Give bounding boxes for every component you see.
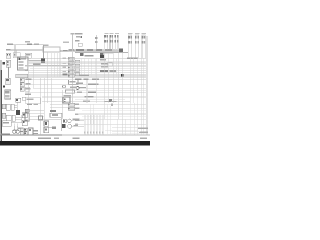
junction box (50-62,113-117) [50,113,62,117]
label column x75 lower [75,103,79,105]
dark seg [88,92,97,94]
label text right of R2 [85,55,94,57]
connector stack x75-79 [75,60,80,76]
faint verticals x51-60 [52,53,60,77]
connector P3 [6,78,11,85]
box outline lower-left big [26,98,41,104]
fuse dashes on x96 [95,37,97,39]
pin dots on stack [68,58,69,77]
lamp legs up [13,124,15,126]
fuse group G5 x135-139 [135,33,140,58]
wire label 2 on bus A [34,43,39,45]
node drop wires x15,x16 [14,45,16,57]
misc faint crosshatch verticals mid-page [89,104,91,124]
connector rows right-mid (68-75,103-110) [68,103,75,106]
dark seg [85,96,94,98]
blob (111-113,103-107) [105,101,110,102]
bottom-left text [1,134,11,136]
relay text block top (75-82,33-36) [75,33,83,34]
wire y101.8 [42,101,130,103]
lower-left connector cluster [2,104,15,121]
wire from ECU right y60.5 [28,60,41,62]
wires right of D1/D2 [29,109,44,111]
fuse group G3 x114-118 [115,33,119,50]
dark segs on y79.6 [75,79,82,81]
connector with pin (15-21,98-103) [16,98,21,102]
wire bus y72.4 [28,71,146,73]
arrow tick [3,62,5,64]
small box on x40 wire [39,116,43,120]
wire bus y70.6 [25,70,146,72]
right bottom faint ladder [112,127,138,129]
box (28-33,128-135) [28,128,33,135]
right page-edge wire [146,36,149,135]
footer text strips [38,137,51,139]
tick on x72 [71,33,74,34]
faint horizontals bottom-right [105,130,138,132]
wires y104,y107.6 [50,103,68,105]
fuse group G6 x141-146 [141,33,146,58]
box (65-75,90-93) [66,90,75,93]
small boxes right of B1 [20,83,24,87]
tiny text above J1 [44,44,49,46]
text (80-86,87-89) [80,87,87,89]
relay R2 small dark (80-84,53-57) [80,53,83,56]
wire label on bus A [27,43,32,45]
symbol row 2: relay + lamp (62-80,124-128) [62,124,84,128]
wire y63 [28,62,146,64]
lamp circle (76-79,87-89) [76,87,79,90]
tiny text right [25,41,30,43]
left text (25-31,94-96) [25,93,31,95]
fuse group G2 x109-113 [109,33,113,50]
flat module M1 (15-28,74-78) [16,74,28,77]
wire grid horizontals mid [28,60,146,62]
faint verticals bottom-right [129,103,131,135]
connector B1 (17-21,84-90) [20,78,24,82]
pins on P1 [7,54,8,55]
label above M2 [64,95,72,97]
wire bus y65.5 [25,65,72,67]
splice dot (121-123,74-76) [121,74,124,77]
connector stack S-col x68-74 [68,57,74,77]
bottom page border wire [0,134,62,137]
bottom connector stack T1 (44-49,121-133) [44,121,49,133]
wire x8 down [7,67,9,78]
left text rows [26,79,32,81]
wire y58 long [31,57,146,59]
vertical wire x40 bottom [39,120,41,135]
wire y97 [42,96,146,98]
text (70-76,86-89) [70,86,76,88]
connector dark (100-104,53-58) [100,53,103,55]
small box (25,87) [25,87,30,91]
dark segment on y58 [127,58,138,60]
text above lamps [18,128,24,130]
wire y92.6 [25,92,146,94]
connector label K2 [6,49,11,50]
symbol row 1: connector + lamp (62-80,118-123) [63,118,84,122]
text (77-85,82-84) [76,82,83,84]
mid-band bus y79.6 [25,79,146,81]
left text (28-33,88-90) [26,88,31,90]
module M2 (63-70,97-103) [63,97,70,103]
fuse group G4 x128-132 [128,33,133,58]
splice S1 dark dash [63,50,68,52]
wire x96 vertical [95,35,97,50]
connector D2 (25-29,113-121) [25,113,29,121]
wire y90.6 [75,90,146,92]
pin ticks at bottom of drops [84,131,103,133]
connector C10 dark blob (41-45,58-63) [41,45,45,63]
wire stub with splice blob [49,127,56,129]
bus label segments [76,49,84,51]
pin dot in box under drops [14,54,15,56]
wire bus B y50 [10,49,43,51]
boxes right of pin connector [22,97,25,100]
wire y88.4 [33,87,146,89]
small box under drops (13-20,52.6-58) [13,53,20,58]
dark seg on y84.6 [88,84,99,86]
lamp circle (62-66,85-88) [63,85,66,88]
wires in lower-left [14,104,17,106]
label [75,40,80,42]
trunk wire x72.6 [72,52,74,103]
fuse F0 small box [78,43,82,46]
bottom-left cluster: lamp L1 [13,126,20,133]
bus lines y49-52 center [75,48,119,50]
wire pair y75/y77 [28,74,146,76]
vertical wires left-mid [39,78,41,135]
label above [33,63,41,65]
fuse group G1 x104-108 [104,33,108,50]
wire bus C y51 [60,50,75,52]
vertical wires center-left [27,60,29,119]
right vertical wires [103,53,105,119]
tick [3,85,5,87]
labels right of box [34,130,38,131]
text (27-38,103-106) [27,103,32,105]
right bottom short segs [138,127,148,128]
drop wires to bottom bus x85-104 [85,115,103,135]
wires lower horizontal [79,103,146,105]
relay R1 box [5,90,11,99]
wire bus A y45 [13,44,43,46]
wide connector box bottom-left (2-11,120-126) [2,121,11,126]
label box above ECU [25,53,32,58]
wire label text [69,49,75,51]
left page-edge bar [0,60,3,70]
dark connector (16-20,110-115) [16,110,20,115]
splice dot [81,36,83,38]
wire y99.6 [75,99,125,101]
connector label K1 top-left [7,43,13,44]
vertical wire x61.5 bottom [61,118,63,131]
wire x72 vertical [71,33,73,51]
row labels left of stack [63,58,68,76]
junction box J1 (43-60,47-52) [43,47,60,52]
ECU block E1 (17-28,57-70) [18,57,29,70]
text strip (83-94,74-77) [79,75,89,77]
wire y68 [30,67,146,69]
tiny text x63 y41 [63,42,69,44]
bottom black page bar [0,141,150,146]
dark seg (50-56,110-112) [50,110,56,112]
box stack (20-27,128-135) [20,128,27,134]
wire y84.6 [25,84,146,86]
mark (109-112,99-102) [109,99,112,102]
wire label y101 [83,100,90,102]
connector boxes right col (22-27) [22,113,27,118]
connector D1 (25-29,109-112) [25,109,29,112]
connector P2 [6,60,10,67]
text (101-110,63-65) [101,63,108,64]
left component column: connector P1 [6,53,10,58]
module box (68-78,79-84) [69,80,79,84]
connector block C9 dark [119,49,123,52]
faint verticals center x81-95 [81,58,95,77]
label strip (100-113,70-72) [100,70,108,72]
